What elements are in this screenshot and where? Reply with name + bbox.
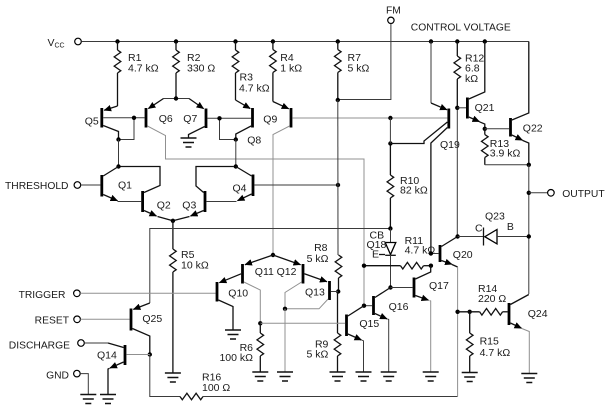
- svg-text:1 kΩ: 1 kΩ: [280, 63, 302, 75]
- resistor R7 5k: [335, 42, 370, 101]
- svg-text:TRIGGER: TRIGGER: [19, 290, 66, 301]
- transistor Q24: [509, 295, 548, 374]
- svg-text:Q10: Q10: [228, 288, 248, 300]
- ground R5: [165, 373, 181, 382]
- node R14 R15 junction dots: [455, 310, 472, 314]
- resistor R14 220: [458, 283, 508, 315]
- svg-text:Q2: Q2: [157, 200, 171, 212]
- node Q4 base dot: [336, 183, 340, 187]
- resistor R15 4.7k: [466, 312, 510, 373]
- svg-text:R15: R15: [480, 336, 499, 348]
- node R7 bottom junction: [336, 98, 340, 102]
- svg-text:THRESHOLD: THRESHOLD: [5, 181, 69, 192]
- transistor Q22: [485, 42, 543, 165]
- node Q25 collector Q14 base junction: [148, 352, 152, 356]
- ground R6: [252, 372, 268, 381]
- svg-text:Q17: Q17: [429, 280, 449, 292]
- wire R7 R8 divider: [337, 100, 339, 255]
- node OUTPUT tap dot: [527, 191, 531, 195]
- transistor Q3: [173, 167, 234, 221]
- ground Q10: [225, 330, 241, 339]
- wire flipflop loop top: [150, 229, 391, 304]
- ground Q7 collector: [181, 138, 197, 147]
- node RESET terminal: [35, 315, 81, 326]
- svg-text:Q20: Q20: [453, 249, 473, 261]
- node THRESHOLD terminal: [5, 181, 81, 192]
- node Q11 collector junction: [258, 321, 262, 325]
- svg-text:GND: GND: [46, 370, 69, 381]
- transistor Q19: [390, 42, 460, 254]
- svg-text:FM: FM: [386, 6, 401, 17]
- wire R13 bottom to Q22 emitter: [485, 164, 529, 166]
- node Q4 collector dot: [234, 164, 238, 168]
- node Q22 emitter R13 junction: [527, 163, 531, 167]
- svg-text:Q25: Q25: [142, 313, 162, 325]
- node rail junction dots: [115, 39, 487, 43]
- wire Q8 collector down to Q4: [235, 140, 237, 167]
- svg-text:Q6: Q6: [159, 113, 173, 125]
- node Q21 emitter junction: [483, 127, 487, 131]
- node R8 R9 junction: [336, 289, 340, 293]
- ground Q17: [423, 372, 439, 381]
- node Q23 B dot: [527, 234, 531, 238]
- svg-text:5 kΩ: 5 kΩ: [348, 63, 370, 75]
- ground R15: [462, 373, 478, 382]
- wire Q25 collector to R16: [150, 355, 180, 397]
- svg-text:Q16: Q16: [389, 301, 409, 313]
- node Q11 Q12 emitter junction: [271, 253, 275, 257]
- wire Q20 emitter down: [457, 267, 459, 397]
- resistor R3 4.7k: [232, 42, 270, 101]
- transistor Q16: [364, 288, 409, 373]
- svg-text:Q13: Q13: [305, 286, 325, 298]
- svg-text:E: E: [372, 248, 379, 260]
- resistor R11 4.7k: [364, 235, 435, 269]
- svg-text:220 Ω: 220 Ω: [478, 293, 506, 305]
- wire Q5 collector down to Q1: [118, 140, 120, 167]
- svg-text:Q1: Q1: [118, 180, 132, 192]
- wire R10 link: [389, 118, 391, 144]
- transistor Q9: [263, 102, 291, 128]
- node R11 end dots: [362, 264, 433, 268]
- svg-text:330 Ω: 330 Ω: [187, 62, 215, 74]
- svg-text:OUTPUT: OUTPUT: [562, 189, 605, 200]
- wire FM to R7 bottom: [338, 24, 391, 100]
- resistor R4 1k: [270, 42, 303, 102]
- resistor R13 3.9k: [482, 129, 521, 165]
- svg-text:Q12: Q12: [277, 266, 297, 278]
- svg-text:CONTROL VOLTAGE: CONTROL VOLTAGE: [411, 23, 511, 34]
- transistor Q11: [243, 255, 275, 323]
- node R10 top dots: [388, 116, 392, 146]
- svg-text:100 Ω: 100 Ω: [202, 382, 230, 394]
- transistor Q15: [347, 306, 380, 372]
- svg-text:Q24: Q24: [528, 308, 548, 320]
- wire GND to ground: [80, 374, 88, 395]
- transistor Q2: [121, 167, 173, 221]
- node Q16 base dot: [362, 304, 366, 308]
- resistor R2 330: [173, 42, 216, 99]
- resistor R5 10k: [170, 221, 209, 373]
- wire RESET to Q25 base: [80, 318, 129, 320]
- transistor Q8: [236, 100, 262, 146]
- resistor R9 5k: [307, 292, 341, 373]
- transistor Q17: [391, 266, 450, 372]
- wire TRIGGER to Q10 base: [80, 292, 215, 294]
- svg-text:Q3: Q3: [182, 200, 196, 212]
- wire R12 down to Q20 collector: [456, 108, 458, 237]
- transistor Q10: [217, 274, 248, 330]
- transistor Q1: [102, 167, 132, 201]
- svg-text:4.7 kΩ: 4.7 kΩ: [480, 347, 511, 359]
- svg-text:Q22: Q22: [523, 123, 543, 135]
- node VCC terminal: [48, 37, 82, 50]
- node Q8 dots: [217, 116, 238, 142]
- resistor R8 5k: [307, 242, 342, 292]
- node Q12 Q13 collector junction: [283, 307, 287, 311]
- node Q21 base dot: [455, 106, 459, 110]
- svg-text:Q15: Q15: [359, 318, 379, 330]
- node GND terminal: [46, 370, 80, 381]
- wire Q1 emitter to Q2 base: [118, 201, 142, 203]
- svg-text:Q8: Q8: [247, 134, 261, 146]
- ground GND: [80, 395, 96, 404]
- svg-text:3.9 kΩ: 3.9 kΩ: [490, 147, 521, 159]
- transistor Q6: [146, 99, 173, 128]
- svg-text:V: V: [48, 37, 55, 49]
- wire DISCHARGE to Q14 collector: [84, 342, 108, 344]
- node Q5 base-collector dots: [116, 116, 136, 142]
- node Q20 collector dot: [455, 234, 459, 238]
- svg-text:Q4: Q4: [233, 183, 247, 195]
- transistor Q4: [233, 167, 254, 201]
- wire Q4 base to divider: [254, 184, 338, 186]
- wire VCC rail: [81, 41, 528, 43]
- svg-text:Q23: Q23: [485, 210, 505, 222]
- svg-text:Q11: Q11: [255, 266, 274, 278]
- svg-text:kΩ: kΩ: [465, 73, 478, 85]
- svg-text:100 kΩ: 100 kΩ: [219, 352, 253, 364]
- node FM terminal: [386, 6, 401, 24]
- node R10 bottom junction: [388, 226, 392, 230]
- transistor Q14: [97, 343, 150, 395]
- node Q20 base dot: [429, 251, 433, 255]
- wire output node vertical: [528, 165, 530, 294]
- node OUTPUT terminal: [529, 189, 606, 200]
- svg-text:4.7 kΩ: 4.7 kΩ: [128, 62, 159, 74]
- transistor Q25: [131, 303, 162, 355]
- node R2 emitter tee: [164, 96, 190, 100]
- svg-text:B: B: [507, 221, 514, 233]
- svg-text:5 kΩ: 5 kΩ: [307, 349, 329, 361]
- wire R16 to Q20 emitter: [203, 396, 458, 398]
- svg-text:Q7: Q7: [183, 113, 197, 125]
- svg-text:RESET: RESET: [35, 315, 70, 326]
- transistor Q7: [183, 99, 251, 139]
- transistor Q12: [273, 255, 303, 309]
- node Q18 E junction: [388, 285, 392, 289]
- transistor Q21: [457, 42, 494, 129]
- resistor R1 4.7k: [114, 42, 159, 107]
- svg-text:Q14: Q14: [97, 349, 117, 361]
- transistor Q13: [285, 274, 338, 309]
- wire Q3 Q4 base link: [206, 201, 236, 203]
- node DISCHARGE terminal: [9, 340, 85, 352]
- resistor R12 6.8k: [454, 42, 484, 108]
- svg-text:82 kΩ: 82 kΩ: [400, 185, 428, 197]
- wire Q5 diode link: [119, 118, 135, 140]
- resistor R6 100k: [219, 323, 263, 372]
- wire Q9 collector down to Q11 Q12: [273, 126, 290, 255]
- svg-text:Q9: Q9: [263, 114, 277, 126]
- svg-text:DISCHARGE: DISCHARGE: [9, 341, 70, 352]
- node Q1 collector dot: [116, 164, 120, 168]
- wire Q11 collector to Q15 base: [260, 322, 345, 324]
- transistor Q5: [85, 106, 145, 140]
- resistor R16 100: [180, 372, 230, 400]
- ground Q24: [521, 374, 537, 383]
- diode Q18: [367, 229, 396, 288]
- wire Q6 collector long path to Q15/Q16: [147, 126, 364, 306]
- svg-text:Q21: Q21: [475, 102, 495, 114]
- svg-text:Q5: Q5: [85, 116, 99, 128]
- wire Q12 Q13 collectors to ground: [284, 309, 286, 372]
- ground Q14: [100, 395, 116, 404]
- transistor Q20: [431, 237, 473, 268]
- node Q2 Q3 emitter junction: [171, 219, 175, 223]
- ground Q16: [381, 372, 397, 381]
- wire Q9 base to Q19 base: [292, 117, 447, 119]
- wire THRESHOLD to Q1: [81, 184, 101, 186]
- svg-text:C: C: [475, 222, 483, 234]
- svg-text:4.7 kΩ: 4.7 kΩ: [239, 82, 270, 94]
- ground R9: [330, 372, 346, 381]
- svg-text:10 kΩ: 10 kΩ: [181, 260, 209, 272]
- wire Q7Q8 base link: [220, 118, 236, 139]
- resistor R10 82k: [387, 144, 428, 229]
- svg-text:5 kΩ: 5 kΩ: [307, 253, 329, 265]
- node TRIGGER terminal: [19, 290, 81, 301]
- diode Q23: [458, 210, 529, 245]
- ground Q15: [356, 372, 372, 381]
- ground Q12 Q13: [277, 372, 293, 381]
- svg-text:CC: CC: [55, 43, 65, 50]
